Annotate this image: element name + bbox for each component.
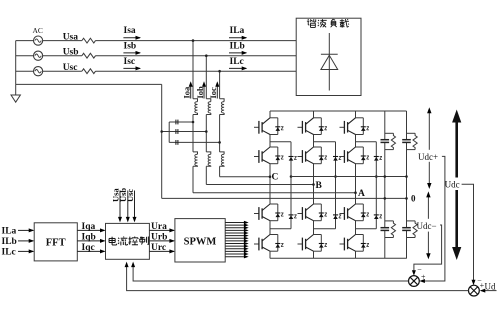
svg-text:+: + [421, 273, 426, 282]
svg-text:Isc: Isc [124, 57, 136, 67]
svg-text:ILa: ILa [230, 26, 245, 36]
svg-text:ILc: ILc [2, 248, 16, 258]
svg-text:Usc: Usc [63, 63, 78, 73]
svg-text:ILc: ILc [230, 57, 244, 67]
svg-text:Usc: Usc [125, 189, 135, 202]
svg-text:B: B [316, 181, 323, 191]
svg-text:Usb: Usb [63, 48, 79, 58]
svg-text:Ioa: Ioa [182, 86, 192, 99]
svg-text:ILb: ILb [2, 237, 17, 247]
svg-text:Udc−: Udc− [417, 221, 437, 231]
svg-text:A: A [358, 189, 365, 199]
svg-text:Ud: Ud [485, 282, 496, 292]
svg-text:C: C [272, 173, 279, 183]
svg-text:FFT: FFT [46, 238, 66, 249]
svg-text:0: 0 [411, 193, 416, 203]
svg-text:Usa: Usa [63, 32, 79, 42]
svg-text:Udc+: Udc+ [418, 152, 438, 162]
svg-text:Ioc: Ioc [208, 87, 218, 99]
svg-text:Isb: Isb [124, 42, 137, 52]
svg-text:SPWM: SPWM [184, 236, 217, 247]
svg-text:Isa: Isa [124, 26, 136, 36]
svg-text:ILb: ILb [230, 42, 245, 52]
svg-text:Udc: Udc [445, 180, 460, 190]
svg-text:ILa: ILa [2, 227, 17, 237]
svg-text:Iob: Iob [195, 86, 205, 99]
svg-text:AC: AC [33, 26, 43, 35]
